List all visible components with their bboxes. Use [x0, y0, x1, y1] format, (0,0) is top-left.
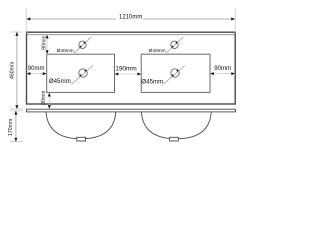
front view slab (countertop edge)	[27, 109, 236, 112]
svg-text:Ø40mm: Ø40mm	[149, 48, 166, 54]
svg-text:460mm: 460mm	[10, 62, 16, 79]
svg-text:170mm: 170mm	[8, 119, 14, 136]
dim 80mm bottom dimension line	[48, 93, 50, 109]
drain hole 2 leader arrowheads	[171, 74, 174, 77]
basin bowl 2 (front view)	[141, 112, 211, 139]
dim 80mm top dimension line	[46, 35, 48, 54]
faucet hole 1 leader line	[74, 37, 91, 53]
dim 190mm arrowheads	[115, 73, 119, 76]
dim 80mm top arrowheads	[46, 35, 49, 39]
drain stub 2 (front view)	[170, 137, 179, 141]
dim 460mm dimension line	[16, 32, 18, 109]
svg-text:90mm: 90mm	[28, 66, 45, 72]
dim 80mm bottom arrowheads	[48, 93, 51, 97]
svg-text:80mm: 80mm	[41, 91, 47, 105]
dim 90mm left arrowheads	[27, 72, 31, 75]
svg-text:1210mm: 1210mm	[119, 15, 142, 21]
sink basin 1 (top view)	[47, 54, 115, 92]
dim 170mm extension tick top	[10, 110, 23, 112]
dim 190mm dimension line	[115, 73, 142, 75]
countertop front edge inner line	[27, 34, 235, 36]
dim 460mm extension tick bottom	[10, 108, 23, 110]
dim 90mm right arrowheads	[210, 72, 214, 75]
dim 1210mm extension line left	[25, 9, 27, 34]
faucet hole 2 leader arrowheads	[171, 46, 174, 49]
dim 90mm left dimension line	[27, 73, 47, 75]
dim 170mm extension tick bottom	[10, 141, 23, 143]
drain hole 1 leader line	[71, 66, 93, 85]
svg-text:Ø40mm: Ø40mm	[57, 48, 74, 54]
drain stub 1 (front view)	[77, 137, 86, 141]
dim 170mm arrowheads	[14, 111, 17, 115]
dim 170mm dimension line	[15, 111, 17, 142]
basin bowl 1 (front view)	[46, 112, 116, 139]
svg-text:90mm: 90mm	[214, 65, 231, 72]
dim 90mm right dimension line	[210, 73, 235, 75]
faucet hole 2 leader line	[166, 37, 183, 53]
drain hole 2 (circle)	[171, 69, 179, 77]
dim 1210mm extension line right	[234, 9, 236, 34]
dim 1210mm arrowheads	[27, 18, 31, 21]
countertop top-view outline	[27, 32, 236, 104]
drain hole 2 leader line	[163, 66, 185, 85]
faucet hole 2 (circle)	[171, 41, 178, 48]
svg-text:190mm: 190mm	[115, 66, 136, 73]
faucet hole 1 leader arrowheads	[79, 46, 82, 49]
drain hole 1 leader arrowheads	[79, 74, 82, 77]
svg-text:Ø45mm: Ø45mm	[141, 79, 163, 86]
drain hole 1 (circle)	[79, 69, 87, 77]
faucet hole 1 (circle)	[79, 41, 86, 48]
sink basin 2 (top view)	[141, 54, 210, 92]
dim 460mm arrowheads	[15, 32, 18, 36]
svg-text:Ø45mm: Ø45mm	[49, 78, 71, 85]
dim 1210mm dimension line	[27, 18, 117, 20]
svg-text:80mm: 80mm	[42, 36, 48, 50]
dim 460mm extension tick top	[10, 31, 22, 33]
